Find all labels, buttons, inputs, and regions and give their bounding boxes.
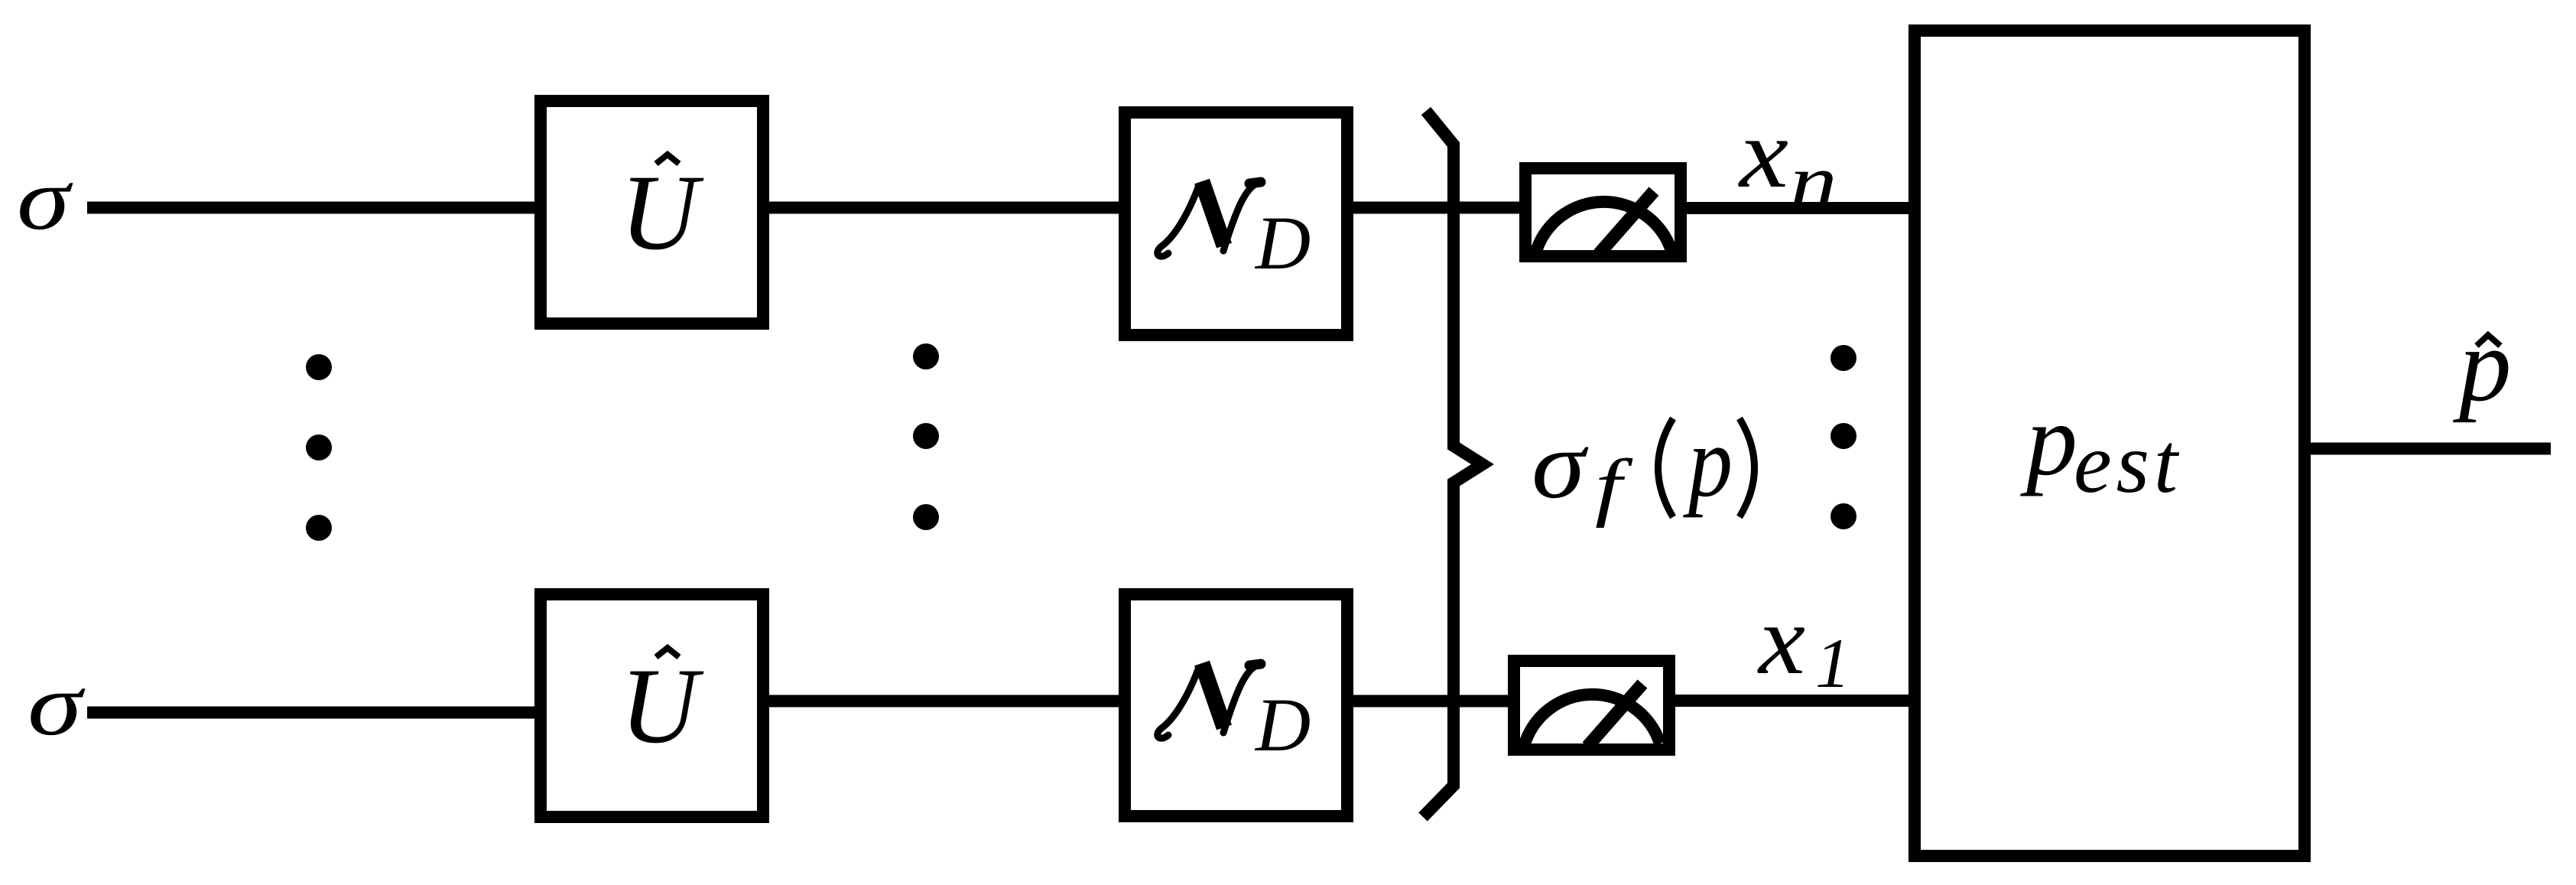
label script N_D in box 2 xyxy=(1158,663,1311,767)
gate box N_D 2 (bottom noise channel) xyxy=(1125,594,1347,816)
wire bottom N_D to meter xyxy=(1349,695,1519,708)
meter M1 (top measurement) xyxy=(1525,168,1681,256)
svg-text:n: n xyxy=(1790,140,1837,222)
svg-text:1: 1 xyxy=(1815,624,1850,702)
node label x_n xyxy=(1738,99,1837,222)
gate box N_D 1 (top noise channel) xyxy=(1125,112,1347,335)
gate box U1 (top unitary) xyxy=(541,101,763,324)
wire bottom input xyxy=(87,707,543,719)
svg-text:x: x xyxy=(1757,585,1805,695)
vertical dots column 1 (left) xyxy=(306,354,332,541)
wire bottom meter to p_est xyxy=(1671,695,1913,707)
svg-text:p: p xyxy=(2452,307,2512,423)
svg-text:est: est xyxy=(2074,416,2180,511)
squiggle cut line with zigzag (classical bundle marker) xyxy=(1423,111,1483,817)
svg-text:p: p xyxy=(2020,383,2077,496)
gate box U2 (bottom unitary) xyxy=(541,594,763,817)
meter M2 (bottom measurement) xyxy=(1514,661,1669,750)
estimator box p_est xyxy=(1915,31,2305,856)
svg-text:D: D xyxy=(1254,200,1311,285)
svg-text:σ: σ xyxy=(1532,412,1589,519)
wire top input xyxy=(87,202,543,214)
wire top N_D to meter xyxy=(1349,202,1525,214)
svg-text:p: p xyxy=(1683,405,1733,518)
svg-text:σ: σ xyxy=(17,151,73,249)
svg-text:D: D xyxy=(1254,682,1311,767)
vertical dots column 2 (middle) xyxy=(913,343,939,530)
svg-text:U: U xyxy=(620,153,704,272)
vertical dots column 3 (right) xyxy=(1830,345,1856,529)
label p_est xyxy=(2020,383,2180,511)
wire bottom U to N_D xyxy=(765,695,1124,708)
svg-text:x: x xyxy=(1738,99,1788,209)
node label x_1 xyxy=(1757,585,1850,702)
wire top meter to p_est xyxy=(1682,202,1913,214)
svg-text:σ: σ xyxy=(28,656,86,754)
label script N_D in box 1 xyxy=(1158,181,1311,285)
svg-text:f: f xyxy=(1595,444,1633,529)
wire output p_est xyxy=(2306,443,2551,455)
svg-text:U: U xyxy=(620,646,704,766)
wire top U to N_D xyxy=(765,202,1124,214)
label sigma_f(p) xyxy=(1532,405,1755,529)
output label p-hat xyxy=(2452,307,2512,423)
